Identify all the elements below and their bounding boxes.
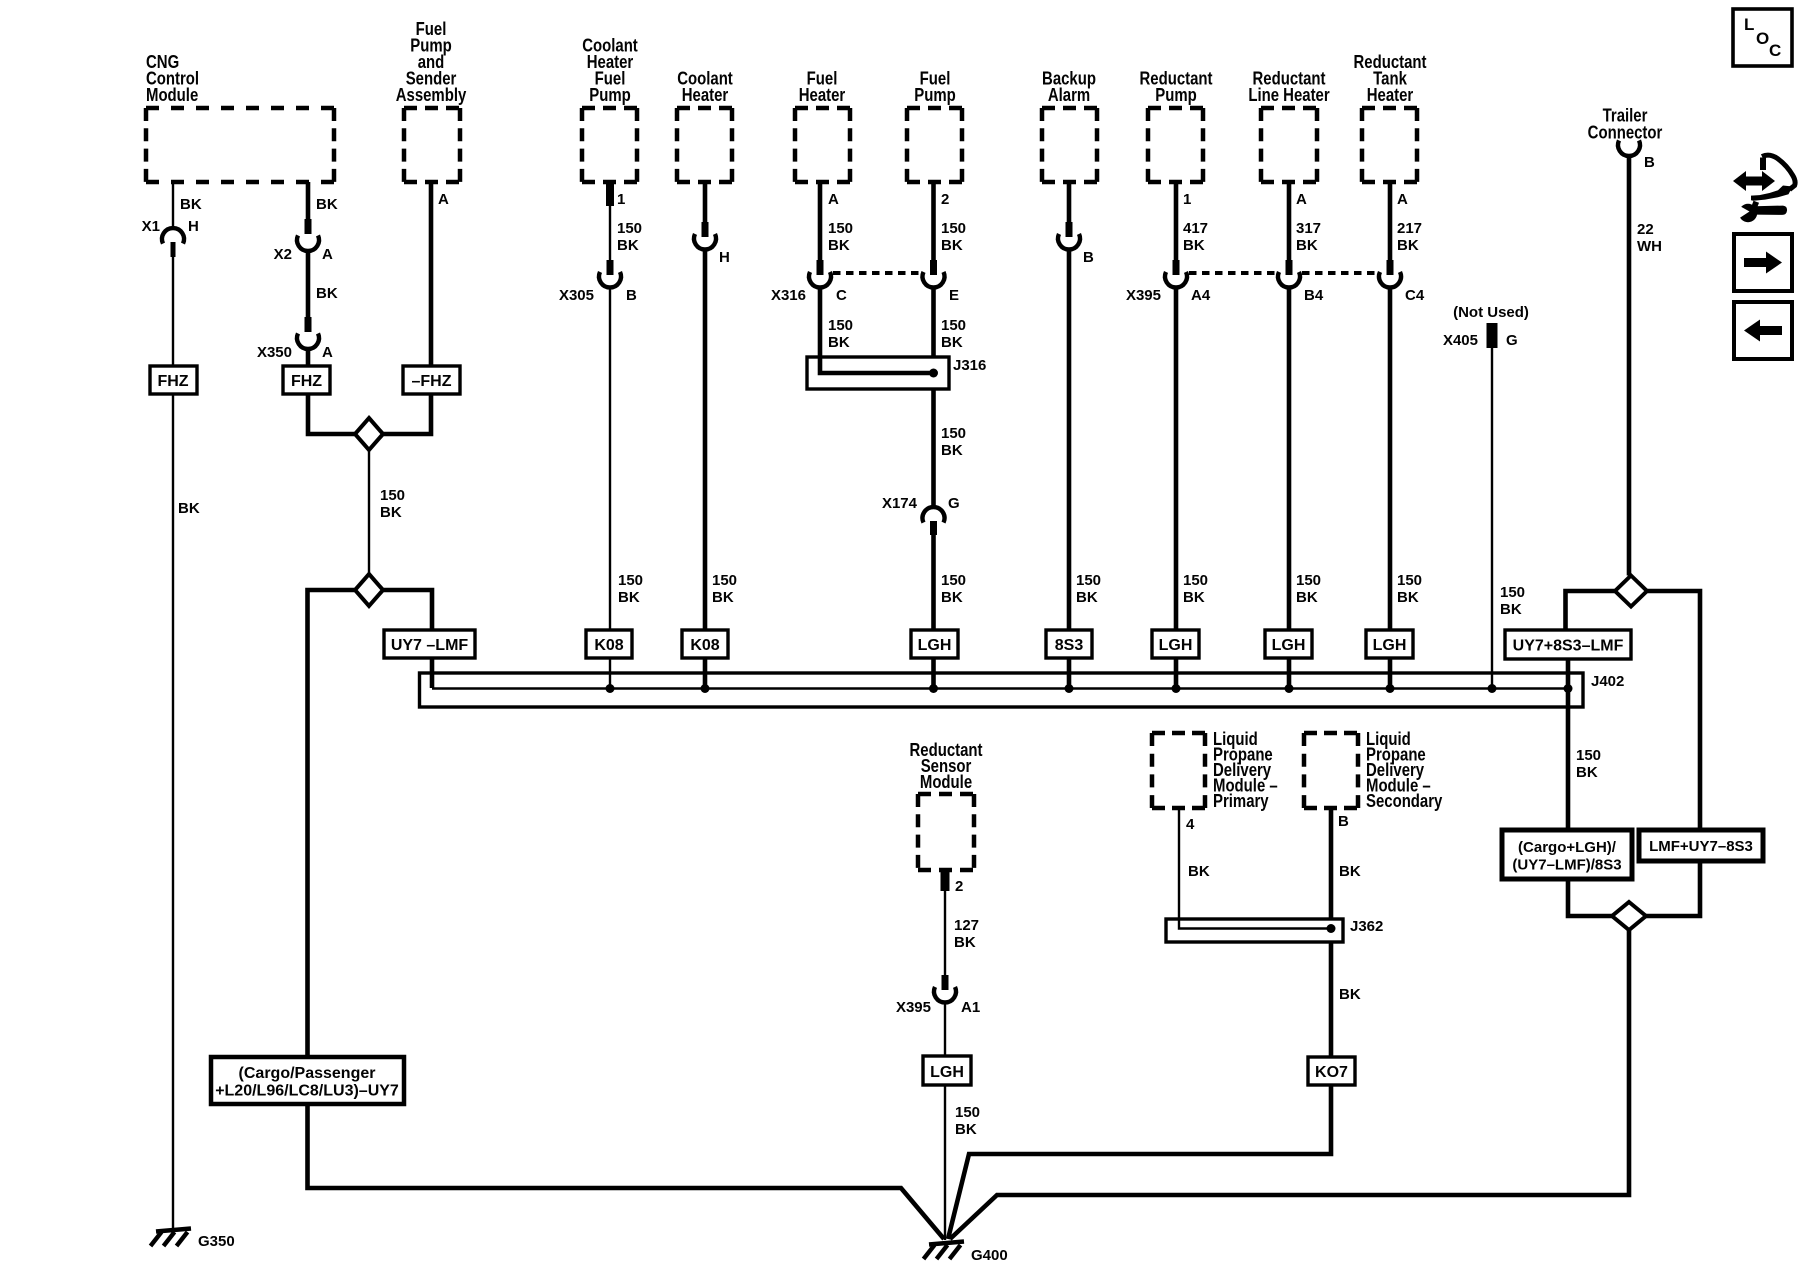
component box Coolant Heater Fuel Pump	[582, 108, 637, 182]
svg-text:X174: X174	[882, 495, 918, 512]
wire K08 right to bus	[703, 658, 708, 688]
svg-text:150: 150	[1576, 747, 1601, 764]
svg-text:LGH: LGH	[1272, 637, 1306, 654]
wire LGH tank heater to bus	[1388, 658, 1393, 688]
connector X316 pin C	[771, 260, 847, 304]
wire LGH reductant pump to bus	[1174, 658, 1179, 688]
svg-text:BK: BK	[955, 1121, 977, 1138]
wire LGH to bus	[931, 658, 936, 688]
svg-text:–FHZ: –FHZ	[412, 373, 452, 390]
svg-text:BK: BK	[828, 334, 850, 351]
wire X1 to FHZ	[173, 257, 200, 517]
wire X395 A1 to LGH	[944, 1001, 946, 1056]
dashed link X395 B4-C4	[1302, 271, 1377, 275]
svg-text:BK: BK	[1183, 589, 1205, 606]
connector X350 pin A	[257, 317, 333, 361]
fuse option LMF+UY7-8S3	[1639, 830, 1763, 861]
label Reductant Pump	[1139, 68, 1212, 105]
svg-text:H: H	[719, 249, 730, 266]
wire Coolant Heater Fuel Pump pin 1	[606, 182, 642, 261]
wire LMF+UY7-8S3 to diamond	[1646, 861, 1700, 916]
wire diamond to UY7+8S3-LMF	[1566, 591, 1616, 630]
svg-text:150: 150	[1500, 584, 1525, 601]
svg-text:150: 150	[380, 487, 405, 504]
svg-text:BK: BK	[178, 500, 200, 517]
fuse LGH line heater	[1265, 630, 1312, 658]
connector X395 pin B4	[1278, 260, 1324, 304]
connector X174 pin G	[882, 495, 960, 535]
junction on bus at K08 right	[701, 684, 710, 693]
svg-text:150: 150	[617, 220, 642, 237]
svg-text:K08: K08	[690, 637, 719, 654]
svg-text:BK: BK	[941, 237, 963, 254]
component box CNG Control Module	[146, 108, 334, 182]
wire CNG to X2	[308, 182, 338, 221]
wire Backup Alarm pin	[1067, 182, 1072, 224]
wire J362 to KO7	[1331, 942, 1361, 1057]
ground G350	[151, 1229, 235, 1251]
svg-text:A1: A1	[961, 999, 980, 1016]
component box Fuel Heater	[795, 108, 850, 182]
svg-text:X395: X395	[896, 999, 931, 1016]
connector X1 pin H	[142, 218, 199, 257]
fuse UY7+8S3-LMF	[1505, 630, 1631, 659]
svg-text:BK: BK	[1188, 863, 1210, 880]
wire X2 to X350	[308, 249, 338, 318]
component box Coolant Heater	[677, 108, 732, 182]
wire between diamonds 150 BK	[369, 450, 405, 574]
wire X395 A4 to LGH	[1176, 286, 1208, 630]
svg-text:B: B	[1338, 813, 1349, 830]
label Liquid Propane Delivery Module Primary	[1213, 729, 1278, 812]
junction on bus at 8S3	[1065, 684, 1074, 693]
svg-text:317: 317	[1296, 220, 1321, 237]
connector X395 pin A1	[896, 975, 980, 1016]
wire Fuel Heater pin A	[820, 182, 853, 261]
wire Coolant Heater pin	[703, 182, 708, 224]
label Reductant Sensor Module	[909, 740, 982, 793]
svg-text:BK: BK	[1339, 863, 1361, 880]
wire UY7+8S3-LMF below bus 150 BK	[1568, 688, 1601, 830]
junction on bus at X405	[1488, 684, 1497, 693]
svg-text:Module: Module	[146, 85, 198, 106]
svg-text:FHZ: FHZ	[291, 373, 322, 390]
svg-text:Secondary: Secondary	[1366, 791, 1443, 812]
svg-text:2: 2	[955, 878, 963, 895]
svg-text:BK: BK	[1296, 589, 1318, 606]
connector X395 pin C4	[1379, 260, 1425, 304]
wire CNG pin H to X1	[173, 182, 202, 228]
wire LGH sensor to G400	[945, 1085, 980, 1240]
svg-text:BK: BK	[1397, 589, 1419, 606]
svg-text:BK: BK	[941, 442, 963, 459]
wire Reductant Line Heater pin A	[1289, 182, 1321, 261]
svg-text:X405: X405	[1443, 332, 1478, 349]
svg-text:X350: X350	[257, 344, 292, 361]
wire KO7 to G400	[948, 1085, 1331, 1239]
component box Backup Alarm	[1042, 108, 1097, 182]
splice J316	[807, 357, 986, 389]
svg-text:X1: X1	[142, 218, 160, 235]
wire X174 to LGH	[934, 535, 967, 630]
wire Fuel Pump Sender pin A	[431, 182, 449, 366]
wire diamond to cargo branch	[308, 590, 356, 1057]
svg-text:O: O	[1756, 29, 1769, 48]
svg-text:BK: BK	[941, 334, 963, 351]
svg-text:G400: G400	[971, 1247, 1008, 1264]
svg-text:Pump: Pump	[589, 85, 630, 106]
svg-text:H: H	[188, 218, 199, 235]
wire X395 B4 to LGH	[1289, 286, 1321, 630]
junction J362	[1327, 924, 1336, 933]
dashed link X316	[833, 271, 921, 275]
connector Backup Alarm pin B	[1058, 222, 1094, 266]
wire UY7-LMF to bus	[430, 658, 435, 688]
svg-text:150: 150	[1076, 572, 1101, 589]
svg-text:BK: BK	[1500, 601, 1522, 618]
component box Reductant Line Heater	[1261, 108, 1317, 182]
component box Liquid Propane Delivery Module Primary	[1152, 733, 1205, 808]
svg-text:1: 1	[617, 191, 625, 208]
wire X395 C4 to LGH	[1390, 286, 1422, 630]
svg-text:217: 217	[1397, 220, 1422, 237]
wire Reductant Pump pin 1	[1176, 182, 1208, 261]
svg-text:BK: BK	[617, 237, 639, 254]
junction on bus at K08 left	[606, 684, 615, 693]
splice J362	[1166, 918, 1383, 942]
fuse K08 left	[586, 630, 632, 658]
legend box arrow right	[1734, 234, 1792, 291]
svg-text:BK: BK	[1076, 589, 1098, 606]
wire Reductant Tank Heater pin A	[1390, 182, 1422, 261]
svg-text:2: 2	[941, 191, 949, 208]
connector X2 pin A	[274, 219, 333, 263]
svg-text:BK: BK	[1397, 237, 1419, 254]
svg-text:A: A	[322, 344, 333, 361]
wire LGH line heater to bus	[1287, 658, 1292, 688]
svg-text:(UY7–LMF)/8S3: (UY7–LMF)/8S3	[1512, 857, 1621, 874]
component box Reductant Tank Heater	[1362, 108, 1417, 182]
svg-text:LGH: LGH	[1159, 637, 1193, 654]
label Liquid Propane Delivery Module Secondary	[1366, 729, 1443, 812]
wire -FHZ to splice diamond	[383, 394, 431, 434]
svg-text:Connector: Connector	[1588, 122, 1663, 143]
wire UY7+8S3-LMF to bus	[1566, 659, 1571, 688]
component box Reductant Pump	[1148, 108, 1203, 182]
svg-text:BK: BK	[954, 934, 976, 951]
svg-text:UY7+8S3–LMF: UY7+8S3–LMF	[1513, 638, 1624, 655]
legend icon vehicle with double arrow and wrench	[1733, 155, 1795, 222]
svg-text:Module: Module	[920, 772, 972, 793]
svg-text:BK: BK	[180, 196, 202, 213]
svg-text:J402: J402	[1591, 673, 1624, 690]
wire LPDM secondary pin B	[1331, 808, 1361, 919]
svg-text:B: B	[1083, 249, 1094, 266]
connector X316 pin E	[923, 260, 960, 304]
svg-text:417: 417	[1183, 220, 1208, 237]
fuse -FHZ	[403, 366, 460, 394]
svg-text:C4: C4	[1405, 287, 1425, 304]
fuse FHZ middle	[283, 366, 330, 394]
svg-text:G350: G350	[198, 1233, 235, 1250]
fuse LGH fuel pump	[911, 630, 958, 658]
svg-text:BK: BK	[380, 504, 402, 521]
fuse LGH tank heater	[1366, 630, 1413, 658]
svg-text:(Cargo+LGH)/: (Cargo+LGH)/	[1518, 839, 1617, 856]
svg-text:A: A	[322, 246, 333, 263]
wire Coolant Heater to K08	[705, 248, 737, 630]
svg-text:X2: X2	[274, 246, 292, 263]
svg-text:Alarm: Alarm	[1048, 85, 1090, 106]
connector X395 pin A4	[1126, 260, 1211, 304]
fuse LGH reductant pump	[1152, 630, 1199, 658]
svg-text:1: 1	[1183, 191, 1191, 208]
wire diamond to LMF box branch	[1647, 591, 1700, 830]
wire 8S3 to bus	[1067, 658, 1072, 688]
svg-text:X305: X305	[559, 287, 594, 304]
svg-text:BK: BK	[941, 589, 963, 606]
component box Fuel Pump	[907, 108, 962, 182]
svg-text:150: 150	[828, 220, 853, 237]
svg-text:150: 150	[941, 317, 966, 334]
svg-text:150: 150	[618, 572, 643, 589]
splice pack J402 outer	[420, 673, 1625, 707]
fuse option Cargo Passenger UY7	[211, 1057, 404, 1104]
label Reductant Line Heater	[1248, 68, 1330, 105]
svg-text:(Cargo/Passenger: (Cargo/Passenger	[239, 1065, 376, 1082]
svg-text:KO7: KO7	[1315, 1064, 1348, 1081]
svg-text:C: C	[836, 287, 847, 304]
svg-text:BK: BK	[618, 589, 640, 606]
wire Cargo Passenger to G400	[308, 1104, 945, 1239]
svg-text:G: G	[1506, 332, 1518, 349]
connector Coolant Heater pin H	[694, 222, 730, 266]
svg-text:A: A	[438, 191, 449, 208]
svg-text:4: 4	[1186, 816, 1195, 833]
ground G400	[924, 1242, 1008, 1265]
svg-text:Heater: Heater	[799, 85, 846, 106]
svg-text:FHZ: FHZ	[157, 373, 188, 390]
svg-text:BK: BK	[828, 237, 850, 254]
svg-text:LGH: LGH	[1373, 637, 1407, 654]
svg-text:L: L	[1744, 15, 1754, 34]
svg-text:B: B	[626, 287, 637, 304]
svg-text:C: C	[1769, 41, 1781, 60]
wire diamond to G400	[950, 930, 1629, 1239]
bus wire inside J402	[432, 687, 1570, 690]
svg-text:B: B	[1644, 154, 1655, 171]
svg-text:150: 150	[955, 1104, 980, 1121]
legend box arrow left	[1734, 302, 1792, 359]
connector Trailer pin B	[1618, 140, 1655, 171]
junction J316	[929, 369, 938, 378]
label CNG Control Module	[146, 52, 199, 106]
svg-text:150: 150	[828, 317, 853, 334]
svg-text:E: E	[949, 287, 959, 304]
fuse FHZ left	[150, 366, 197, 394]
junction on bus at LGH tank heater	[1386, 684, 1395, 693]
svg-text:BK: BK	[712, 589, 734, 606]
svg-text:A: A	[828, 191, 839, 208]
legend box LOC	[1733, 9, 1792, 66]
svg-text:BK: BK	[1339, 986, 1361, 1003]
svg-text:A: A	[1397, 191, 1408, 208]
wire K08 to bus	[609, 658, 611, 688]
wire X305 to K08	[610, 286, 643, 630]
component box Reductant Sensor Module	[918, 794, 974, 870]
wire X350 to FHZ	[306, 347, 311, 366]
svg-text:LGH: LGH	[930, 1064, 964, 1081]
svg-text:J362: J362	[1350, 918, 1383, 935]
svg-text:B4: B4	[1304, 287, 1324, 304]
svg-text:BK: BK	[1576, 764, 1598, 781]
svg-text:WH: WH	[1637, 238, 1662, 255]
label Reductant Tank Heater	[1353, 52, 1426, 106]
label Backup Alarm	[1042, 68, 1096, 105]
junction on bus at LGH reductant pump	[1172, 684, 1181, 693]
connector X305 pin B	[559, 260, 637, 304]
connector X405 pin G not used	[1443, 304, 1529, 349]
svg-text:Heater: Heater	[682, 85, 729, 106]
fuse UY7-LMF	[384, 630, 475, 658]
svg-text:X316: X316	[771, 287, 806, 304]
svg-text:BK: BK	[1296, 237, 1318, 254]
wire RSM pin 2	[941, 869, 980, 976]
svg-text:Heater: Heater	[1367, 85, 1414, 106]
wire FHZ to splice diamond	[308, 394, 355, 434]
wire Cargo+LGH to diamond	[1568, 879, 1612, 916]
junction on bus at LGH	[929, 684, 938, 693]
svg-text:X395: X395	[1126, 287, 1161, 304]
wire J316 to X174	[934, 389, 967, 508]
wire FHZ to G350	[172, 394, 174, 1229]
wire inside J362	[1179, 919, 1331, 929]
component box Fuel Pump and Sender Assembly	[404, 108, 460, 182]
fuse K08 right	[682, 630, 728, 658]
svg-text:150: 150	[1397, 572, 1422, 589]
svg-text:Primary: Primary	[1213, 791, 1269, 812]
wire X316 C to J316	[820, 286, 853, 359]
svg-text:Line Heater: Line Heater	[1248, 85, 1330, 106]
svg-text:150: 150	[941, 220, 966, 237]
svg-text:Assembly: Assembly	[396, 85, 467, 106]
wire Trailer to diamond 22 WH	[1629, 156, 1662, 576]
junction on bus at LGH line heater	[1285, 684, 1294, 693]
svg-text:LGH: LGH	[918, 637, 952, 654]
label Fuel Pump and Sender Assembly	[396, 19, 467, 106]
svg-text:(Not Used): (Not Used)	[1453, 304, 1529, 321]
svg-text:UY7 –LMF: UY7 –LMF	[391, 637, 469, 654]
svg-text:G: G	[948, 495, 960, 512]
svg-text:A: A	[1296, 191, 1307, 208]
fuse LGH sensor	[923, 1056, 971, 1085]
label Coolant Heater	[677, 68, 733, 105]
fuse option Cargo+LGH	[1502, 830, 1632, 879]
fuse 8S3	[1046, 630, 1092, 658]
svg-text:22: 22	[1637, 221, 1654, 238]
component box Liquid Propane Delivery Module Secondary	[1304, 733, 1358, 808]
svg-text:150: 150	[1183, 572, 1208, 589]
svg-text:Pump: Pump	[1155, 85, 1196, 106]
svg-text:BK: BK	[316, 285, 338, 302]
wire inside J316	[820, 357, 934, 373]
svg-text:LMF+UY7–8S3: LMF+UY7–8S3	[1649, 838, 1753, 855]
wire X405 to bus	[1492, 348, 1525, 688]
junction on bus at UY7+8S3-LMF	[1564, 684, 1573, 693]
splice diamond right lower	[1612, 902, 1646, 930]
svg-text:8S3: 8S3	[1055, 637, 1084, 654]
svg-text:BK: BK	[1183, 237, 1205, 254]
svg-text:A4: A4	[1191, 287, 1211, 304]
label Trailer Connector	[1588, 105, 1663, 143]
wire Backup Alarm to 8S3	[1069, 248, 1101, 630]
svg-text:J316: J316	[953, 357, 986, 374]
splice diamond upper left	[355, 418, 383, 450]
wire diamond to UY7-LMF	[383, 590, 432, 630]
splice diamond lower left	[355, 574, 383, 606]
svg-text:150: 150	[941, 425, 966, 442]
svg-text:BK: BK	[316, 196, 338, 213]
splice diamond right upper	[1615, 576, 1647, 607]
dashed link X395 A4-B4	[1189, 271, 1276, 275]
wire Fuel Pump pin 2	[934, 182, 967, 261]
label Fuel Pump	[914, 68, 955, 105]
svg-text:127: 127	[954, 917, 979, 934]
svg-text:150: 150	[941, 572, 966, 589]
svg-text:Pump: Pump	[914, 85, 955, 106]
svg-text:K08: K08	[594, 637, 623, 654]
label Coolant Heater Fuel Pump	[582, 35, 638, 105]
svg-text:+L20/L96/LC8/LU3)–UY7: +L20/L96/LC8/LU3)–UY7	[215, 1083, 399, 1100]
label Fuel Heater	[799, 68, 846, 105]
svg-text:150: 150	[712, 572, 737, 589]
wire LPDM primary pin 4	[1179, 808, 1210, 919]
wire X316 E to J316	[934, 286, 967, 357]
fuse KO7	[1308, 1057, 1355, 1085]
svg-text:150: 150	[1296, 572, 1321, 589]
